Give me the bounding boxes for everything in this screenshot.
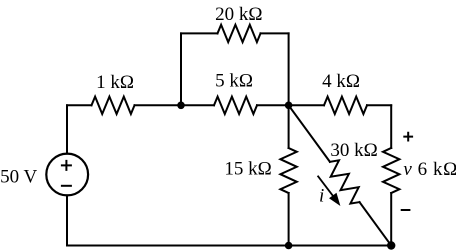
svg-text:4 kΩ: 4 kΩ — [322, 71, 360, 92]
node dot bottom-15k — [285, 242, 293, 250]
svg-text:1 kΩ: 1 kΩ — [96, 72, 134, 93]
svg-text:30 kΩ: 30 kΩ — [330, 140, 377, 161]
resistor R4 4 kOhm — [324, 97, 367, 114]
wire: diagonal upper segment — [289, 105, 330, 162]
svg-text:50 V: 50 V — [0, 167, 37, 188]
wire: 15k branch upper — [288, 105, 290, 148]
resistor R1 1 kOhm — [92, 97, 135, 114]
node dot bottom-right — [387, 241, 395, 249]
wire: top branch left vertical — [180, 33, 182, 105]
resistor R5 15 kOhm — [280, 148, 296, 193]
current arrow i — [318, 176, 340, 205]
voltage source V1 50 V circle — [46, 154, 88, 196]
svg-text:20 kΩ: 20 kΩ — [215, 4, 262, 25]
resistor R3 20 kOhm — [218, 25, 261, 42]
wire: right rail lower — [390, 193, 392, 246]
wire: top branch left horizontal — [181, 32, 218, 34]
resistor R2 5 kOhm — [214, 97, 257, 114]
wire: top branch right horizontal — [261, 32, 289, 34]
wire: 4k to right rail corner — [367, 104, 391, 106]
node dot A — [177, 102, 185, 110]
wire: right rail upper — [390, 105, 392, 148]
wire: node B to 4k — [289, 104, 324, 106]
source plus sign — [61, 160, 72, 171]
svg-text:15 kΩ: 15 kΩ — [224, 159, 271, 180]
svg-text:v 6 kΩ: v 6 kΩ — [403, 159, 456, 180]
svg-text:i: i — [319, 185, 324, 206]
source minus sign — [61, 185, 72, 187]
node dot B — [285, 102, 293, 110]
wire: bottom rail — [67, 245, 391, 247]
resistor R6 6 kOhm — [383, 148, 399, 193]
svg-text:5 kΩ: 5 kΩ — [215, 71, 253, 92]
wire: main line left segment — [67, 104, 92, 106]
wire: left rail bottom (source to bottom rail) — [66, 195, 68, 245]
wire: left rail top (source to main line) — [66, 105, 68, 153]
wire: 1k to node A — [135, 104, 182, 106]
wire: top branch right vertical — [288, 33, 290, 105]
wire: diagonal lower segment — [360, 202, 392, 245]
wire: 5k to node B — [257, 104, 289, 106]
resistor R7 30 kOhm (diagonal) — [330, 160, 360, 203]
polarity minus (v across 6k) — [401, 209, 411, 211]
wire: node A to 5k — [181, 104, 214, 106]
polarity plus (v across 6k) — [403, 132, 413, 142]
wire: 15k branch lower — [288, 193, 290, 246]
